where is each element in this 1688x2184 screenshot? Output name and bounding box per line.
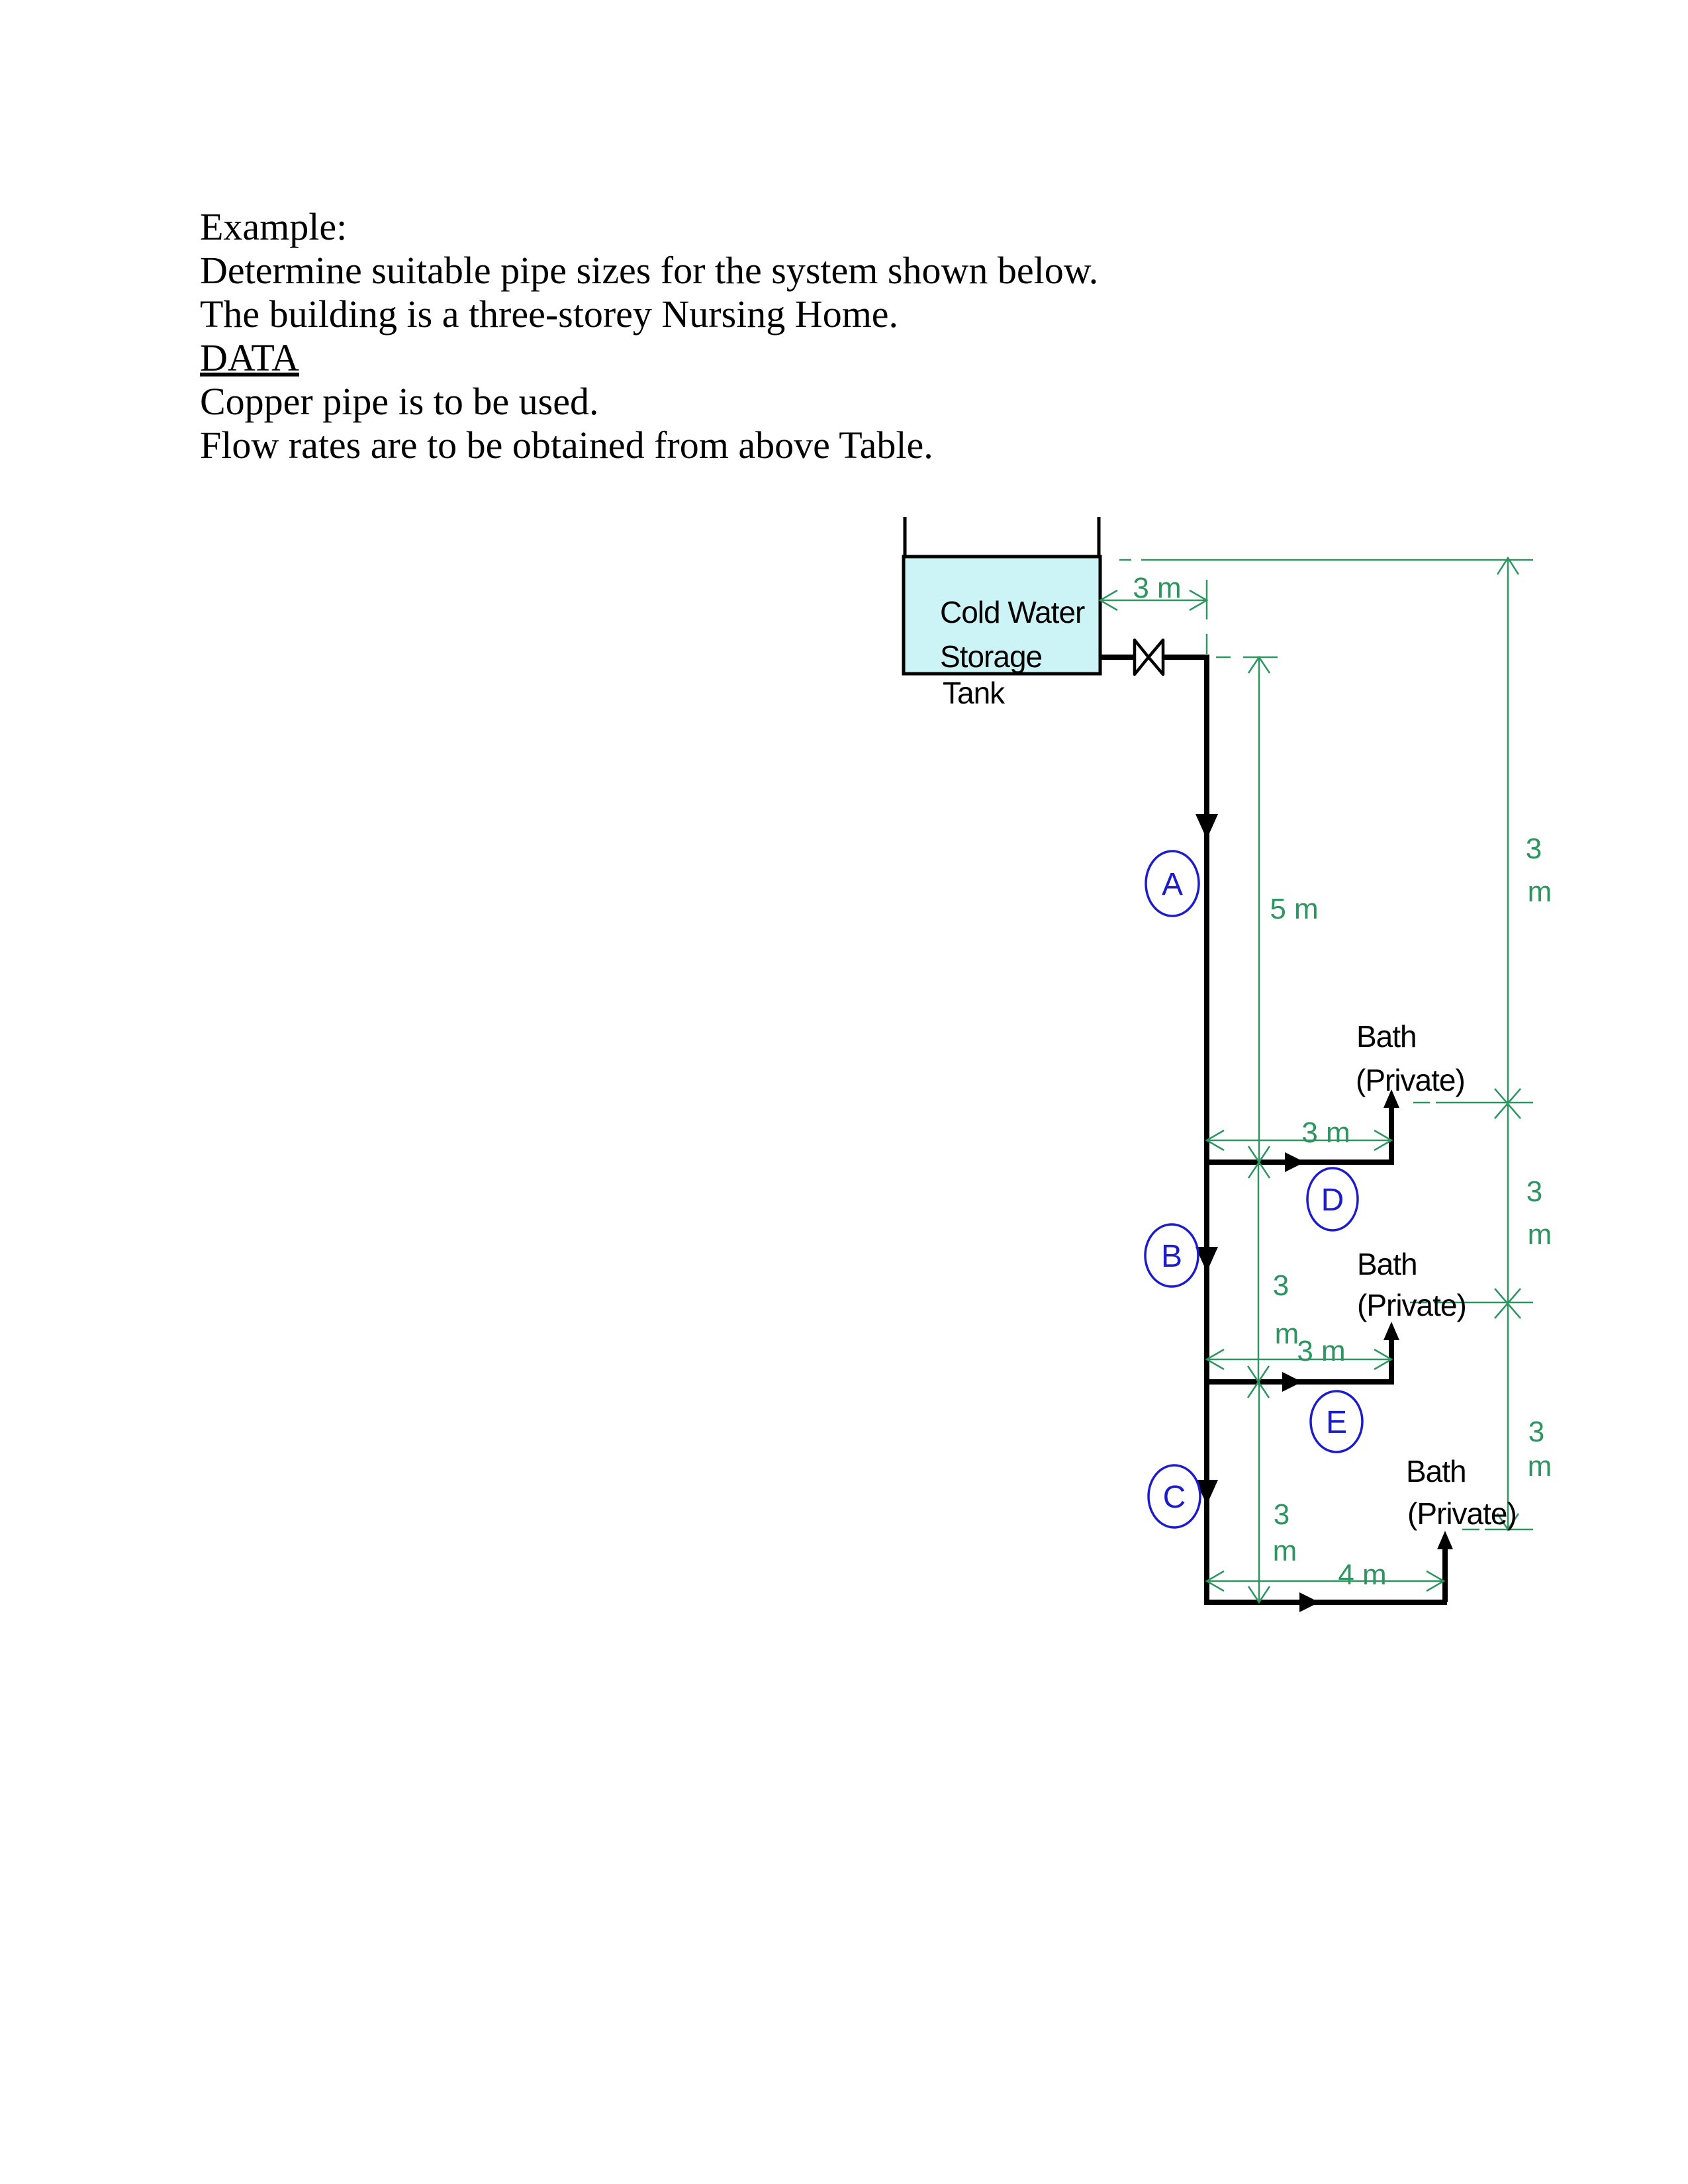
pipes (1100, 657, 1447, 1602)
svg-text:3: 3 (1528, 1416, 1544, 1448)
branch 2 dimension (1207, 1359, 1391, 1361)
svg-text:(Private): (Private) (1407, 1496, 1517, 1531)
svg-text:m: m (1275, 1318, 1299, 1350)
wire: branch 2 to bath 2 (1207, 1332, 1391, 1382)
svg-text:Example:: Example: (200, 205, 347, 248)
valve (1135, 640, 1163, 674)
svg-text:Determine suitable pipe sizes: Determine suitable pipe sizes for the sy… (200, 249, 1098, 292)
3m top dimension (1100, 600, 1207, 602)
svg-text:4 m: 4 m (1338, 1559, 1386, 1591)
svg-text:Tank: Tank (943, 676, 1006, 710)
svg-text:Storage: Storage (940, 639, 1042, 674)
segment B vertical dim (1258, 1162, 1260, 1382)
top reference line at water level (1119, 559, 1131, 561)
dashes at pipe level to 5m line (1216, 657, 1231, 659)
svg-text:m: m (1528, 1450, 1552, 1482)
bottom 4m dimension (1207, 1580, 1444, 1582)
svg-text:m: m (1528, 876, 1552, 908)
green dimension labels (1133, 572, 1552, 1591)
svg-text:Bath: Bath (1357, 1247, 1417, 1281)
svg-text:3 m: 3 m (1297, 1335, 1345, 1367)
branch 1 dimension (1207, 1140, 1391, 1142)
svg-text:Bath: Bath (1356, 1019, 1417, 1054)
bath 1 level line (1413, 1102, 1430, 1104)
svg-text:(Private): (Private) (1357, 1288, 1466, 1322)
svg-text:3: 3 (1273, 1269, 1289, 1302)
svg-text:m: m (1273, 1535, 1297, 1567)
svg-text:3: 3 (1526, 1175, 1542, 1208)
svg-text:Bath: Bath (1406, 1454, 1466, 1488)
bath labels (1356, 1019, 1517, 1531)
svg-text:DATA: DATA (200, 336, 299, 379)
svg-text:5 m: 5 m (1270, 893, 1318, 925)
5m dimension vertical (1258, 657, 1260, 1162)
svg-text:Cold Water: Cold Water (940, 595, 1085, 629)
wire: branch 3 riser (1442, 1542, 1448, 1602)
bath 2 level line (1410, 1302, 1427, 1304)
svg-text:Flow rates are to be obtained: Flow rates are to be obtained from above… (200, 424, 933, 467)
paragraph text (200, 205, 1098, 467)
svg-text:D: D (1321, 1183, 1344, 1218)
svg-text:3: 3 (1274, 1498, 1289, 1531)
flow arrows on pipes (1196, 814, 1453, 1612)
svg-text:3: 3 (1526, 833, 1542, 865)
svg-text:(Private): (Private) (1356, 1063, 1465, 1097)
svg-text:E: E (1326, 1405, 1347, 1440)
node circles (1145, 851, 1362, 1527)
svg-text:The building is a three-storey: The building is a three-storey Nursing H… (200, 293, 898, 336)
svg-text:B: B (1161, 1239, 1182, 1274)
svg-text:Copper pipe is to be used.: Copper pipe is to be used. (200, 380, 598, 423)
svg-text:3 m: 3 m (1301, 1116, 1350, 1149)
right overall dimension line (1507, 558, 1509, 1529)
segment C vertical dim (1258, 1382, 1260, 1602)
svg-text:m: m (1528, 1218, 1552, 1251)
svg-text:3 m: 3 m (1133, 572, 1181, 604)
bottom level line (1462, 1529, 1479, 1531)
svg-text:A: A (1162, 867, 1183, 902)
green dimension lines (1100, 558, 1533, 1602)
wire: main pipe from tank, down, to bottom branch (1100, 657, 1447, 1602)
cold water storage tank (904, 517, 1100, 710)
wire: branch 1 to bath 1 (1207, 1099, 1391, 1162)
svg-text:C: C (1163, 1480, 1186, 1515)
